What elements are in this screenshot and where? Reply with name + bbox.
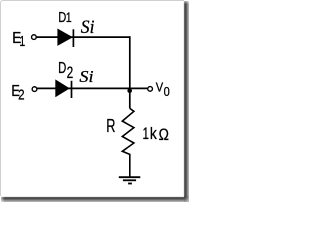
resistor R zigzag [122,108,134,176]
svg-text:D: D [58,59,66,76]
terminal circle V0 [148,87,153,92]
diode D1 cathode bar [72,29,74,47]
terminal circle E2 [32,87,37,92]
label 1 k ohm [143,124,169,144]
label D1 [58,8,71,25]
svg-text:V: V [156,80,164,95]
wire E1 to corner [36,36,130,38]
label E1 [12,30,25,49]
svg-text:2: 2 [67,64,74,82]
svg-text:Si: Si [79,68,93,86]
label D2 [58,59,73,82]
diode D2 cathode bar [71,81,73,98]
svg-text:1: 1 [66,9,72,25]
svg-text:2: 2 [18,86,24,103]
svg-text:1: 1 [143,124,150,142]
ground symbol [119,177,141,183]
svg-text:Si: Si [81,17,95,38]
wire vertical from corner to resistor [129,36,131,108]
wire E2 to V0 [37,87,148,89]
diode D1 triangle [57,29,73,46]
junction node dot [127,88,132,93]
svg-text:k: k [150,125,157,143]
svg-text:R: R [106,117,115,137]
svg-text:0: 0 [164,84,170,99]
terminal circle E1 [32,35,37,40]
svg-text:Ω: Ω [159,126,169,144]
label V0 [156,80,170,99]
label E2 [11,83,24,103]
svg-text:1: 1 [19,34,25,50]
diode D2 triangle [55,79,70,97]
